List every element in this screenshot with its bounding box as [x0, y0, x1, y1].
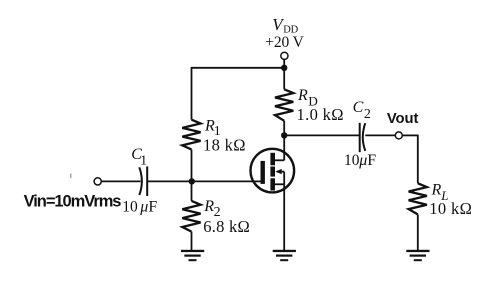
svg-text:10: 10 [344, 152, 360, 169]
wire top rail [192, 67, 285, 69]
svg-text:18 kΩ: 18 kΩ [203, 135, 246, 154]
wire R1 to R2 through gate node [191, 150, 193, 201]
svg-text:10 kΩ: 10 kΩ [429, 199, 472, 218]
wire input terminal to C1 [101, 180, 140, 182]
svg-text:1.0 kΩ: 1.0 kΩ [297, 105, 344, 124]
wire C1 to MOSFET gate through node [147, 180, 260, 182]
node junction below VDD terminal [281, 65, 287, 71]
resistor RD [275, 89, 293, 121]
svg-text:10: 10 [122, 198, 138, 215]
MOSFET substrate arrow lead [277, 171, 284, 173]
resistor R1 [182, 120, 200, 150]
ground symbol at RL [406, 250, 429, 261]
wire drain node into MOSFET drain [283, 135, 285, 160]
wire drain node to C2 [284, 134, 360, 136]
stray blue mark artifact [70, 174, 71, 179]
VDD terminal circle [281, 52, 288, 59]
svg-text:Vout: Vout [387, 111, 419, 127]
MOSFET source internal jog [275, 183, 284, 185]
svg-text:μF: μF [139, 198, 157, 215]
wire MOSFET source to ground [283, 184, 285, 250]
MOSFET gate bar [261, 161, 265, 184]
MOSFET channel bottom segment [270, 178, 275, 190]
wire VDD node to RD [283, 68, 285, 90]
svg-text:Vin=10mVrms: Vin=10mVrms [24, 193, 122, 211]
wire RD to drain node [283, 121, 285, 136]
capacitor C2 straight plate [359, 123, 361, 152]
capacitor C1 curved plate [139, 167, 142, 195]
MOSFET channel top segment [270, 153, 275, 166]
MOSFET drain internal jog [275, 159, 284, 161]
input terminal circle [94, 178, 101, 185]
node junction at drain [281, 132, 287, 138]
MOSFET substrate arrow head [275, 169, 281, 174]
MOSFET channel middle segment [270, 167, 275, 177]
svg-text:6.8 kΩ: 6.8 kΩ [203, 217, 250, 236]
wire Vout terminal to corner [402, 134, 418, 136]
wire VDD terminal stem [283, 59, 285, 67]
svg-text:+20 V: +20 V [265, 34, 304, 51]
node junction at gate [189, 178, 195, 184]
capacitor C1 straight plate [146, 166, 148, 196]
wire corner down to RL [417, 135, 419, 184]
resistor R2 [182, 201, 200, 232]
Vout terminal circle [395, 132, 402, 139]
ground symbol at MOSFET source [273, 250, 296, 261]
wire C2 to Vout terminal [365, 134, 395, 136]
wire rail corner down to R1 [191, 67, 193, 120]
svg-text:μF: μF [358, 152, 376, 169]
resistor RL [409, 183, 427, 214]
ground symbol at R2 [181, 250, 204, 261]
capacitor C2 curved plate [363, 123, 366, 151]
wire R2 to ground [191, 232, 193, 250]
MOSFET Q1 body circle [250, 149, 294, 193]
wire RL to ground [417, 214, 419, 250]
